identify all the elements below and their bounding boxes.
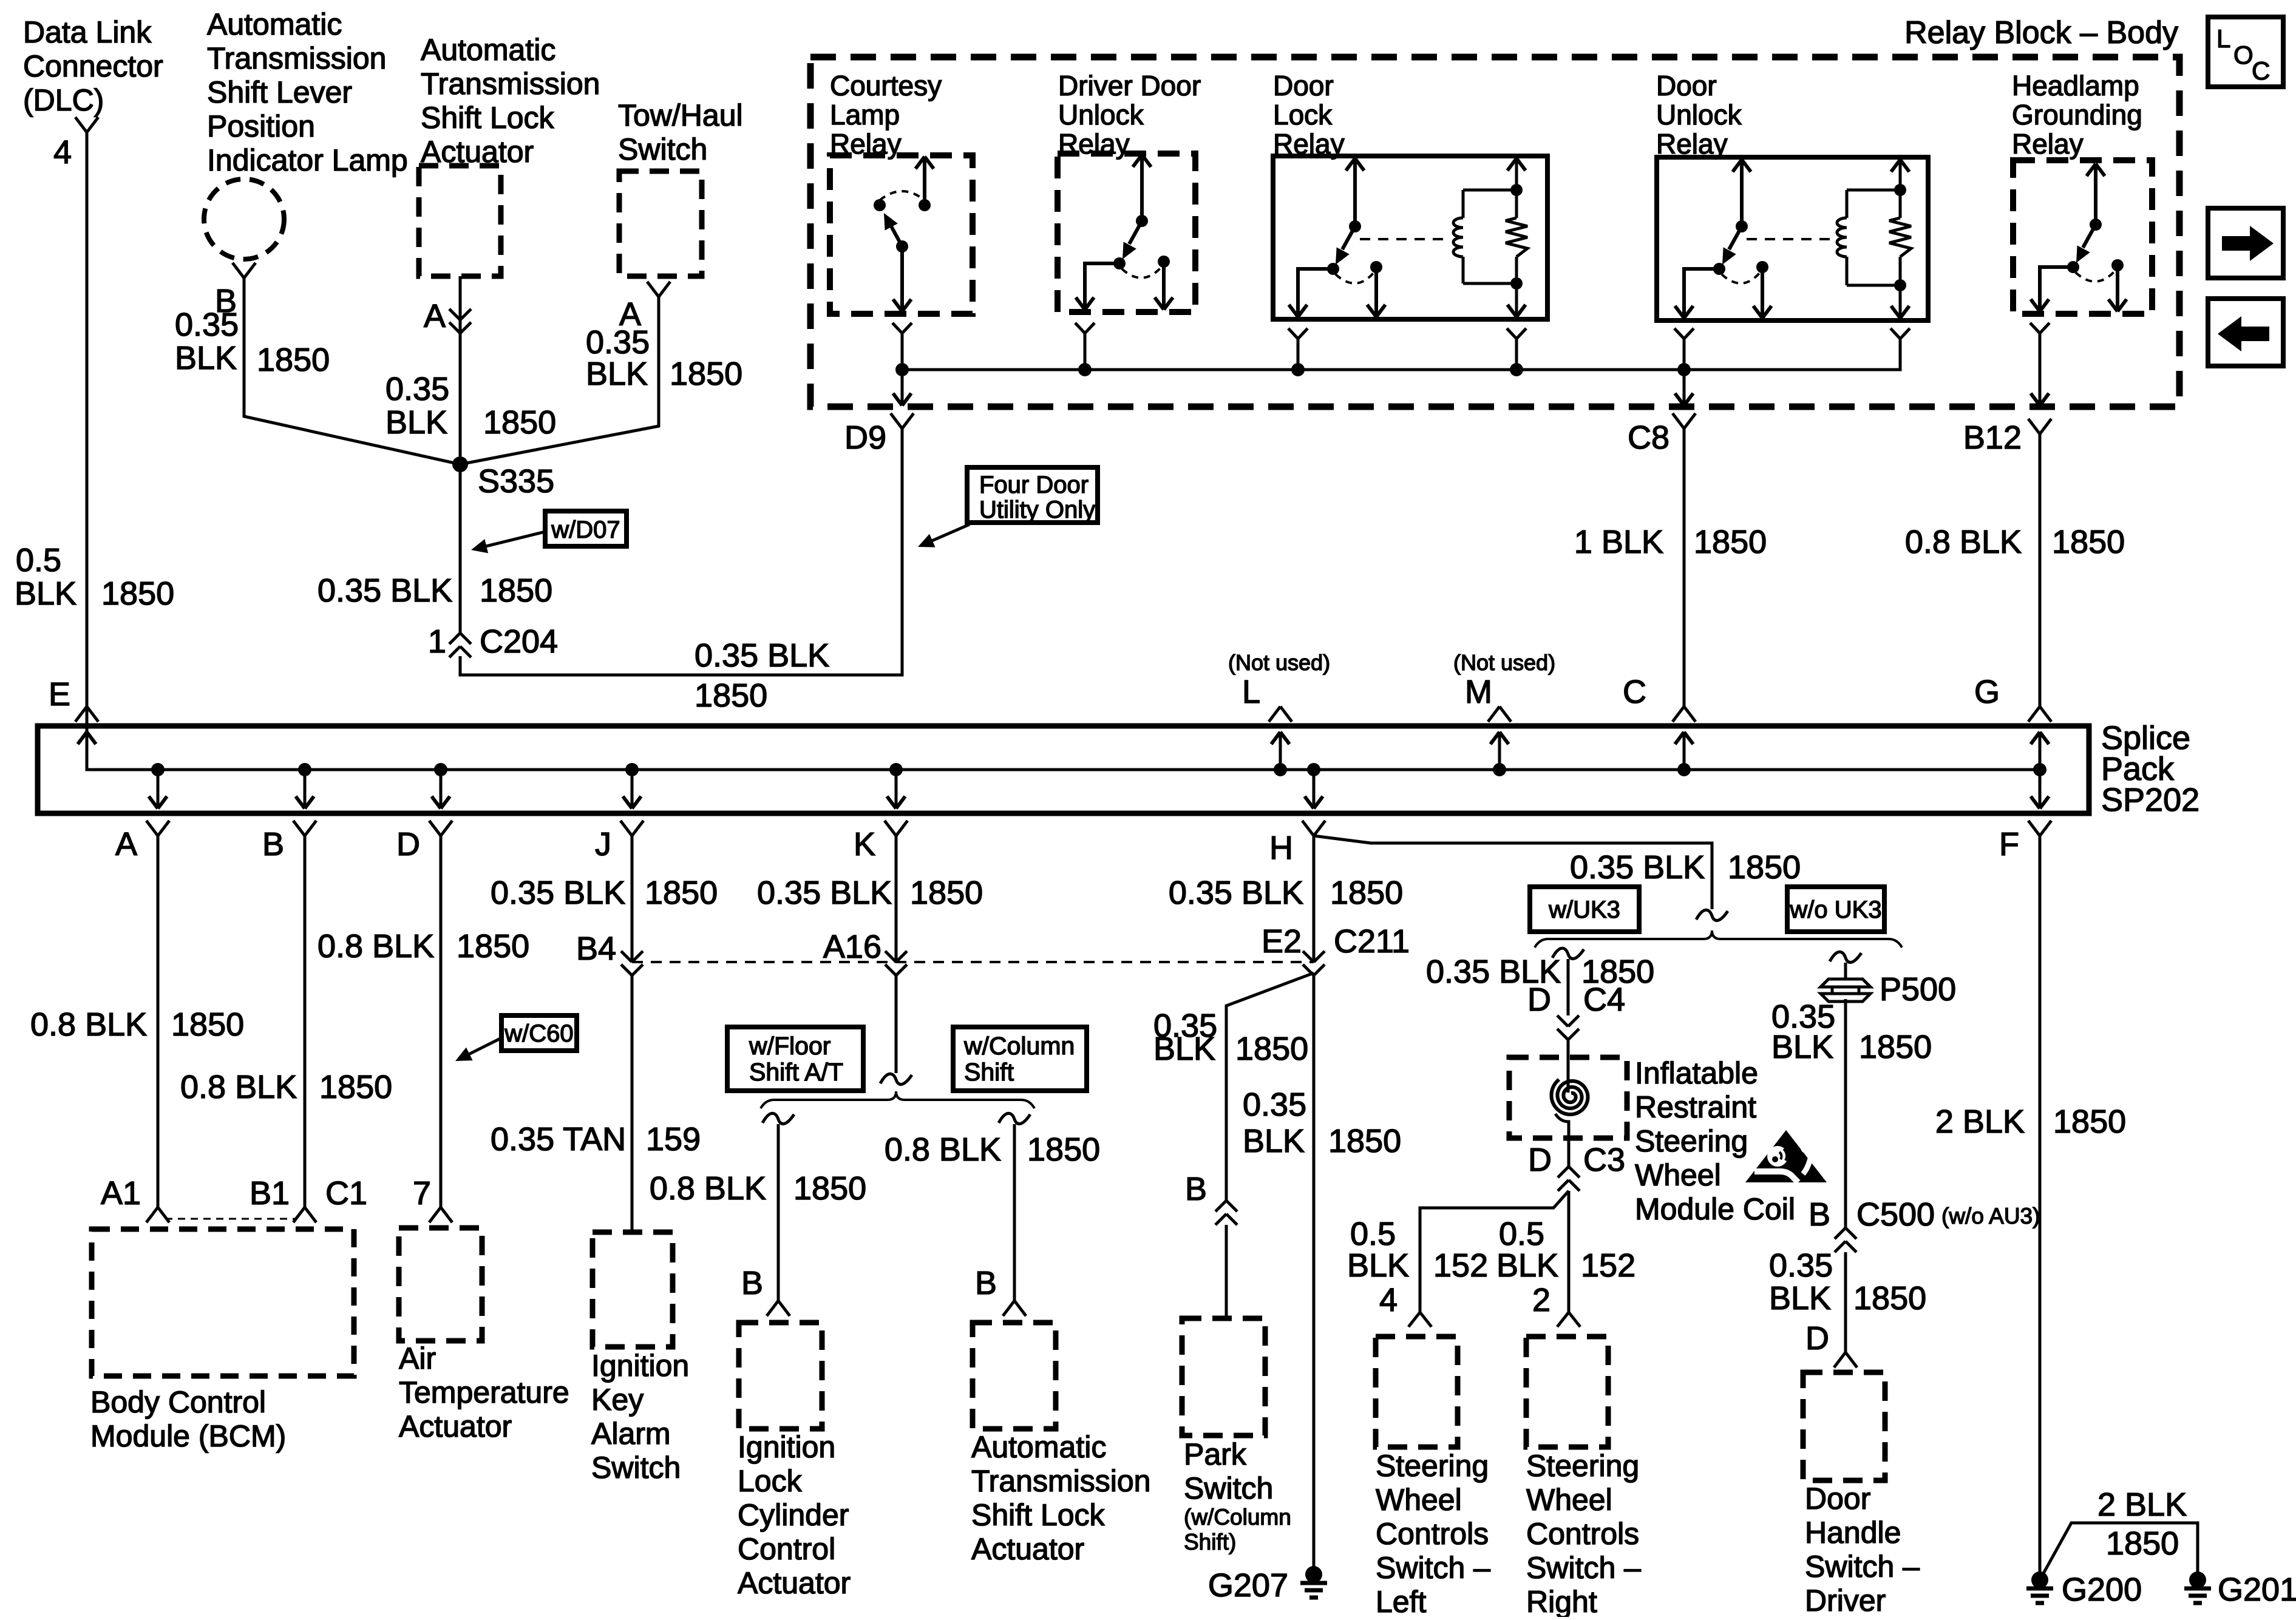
wire: tow/haul switch pin A to S335 (0.35 BLK 1850)	[460, 297, 659, 464]
svg-text:w/Column: w/Column	[963, 1032, 1075, 1060]
svg-text:G201: G201	[2218, 1571, 2296, 1608]
svg-text:Position: Position	[207, 109, 315, 143]
splice pack pin H	[1269, 770, 1325, 866]
svg-text:1850: 1850	[480, 572, 552, 609]
wire: C204 to relay block D9 wire (0.35 BLK 1850)	[460, 429, 902, 675]
label: 0.8 BLK 1850 (B12 wire)	[1905, 524, 2125, 560]
label: 0.35 BLK 1850 (H wire below C211)	[1243, 1086, 1401, 1159]
svg-text:A16: A16	[823, 929, 881, 965]
wire: H branch to UK3 option split (0.35 BLK 1850)	[1314, 836, 1728, 921]
svg-text:4: 4	[1379, 1282, 1398, 1318]
svg-text:S335: S335	[478, 463, 554, 500]
splice pack pin G (from relay B12)	[1974, 674, 2051, 770]
airbag warning triangle	[1745, 1130, 1827, 1182]
wire: splice pack F to ground G200 (2 BLK 1850)	[2039, 836, 2042, 1580]
svg-text:D: D	[1528, 1142, 1552, 1178]
svg-text:0.35 BLK: 0.35 BLK	[757, 875, 892, 911]
svg-text:Indicator Lamp: Indicator Lamp	[207, 143, 408, 177]
svg-text:BLK: BLK	[1496, 1247, 1558, 1284]
svg-text:B: B	[975, 1265, 997, 1301]
connector C4 pin D (double chevron)	[1527, 981, 1625, 1040]
label: 2 BLK 1850 (wire F)	[1935, 1103, 2126, 1140]
label: 0.5 BLK 1850 on DLC ground wire	[15, 542, 174, 612]
svg-text:0.35 BLK: 0.35 BLK	[695, 637, 829, 674]
svg-text:C: C	[2252, 56, 2270, 85]
svg-text:Switch –: Switch –	[1376, 1551, 1490, 1585]
svg-text:Door: Door	[1656, 70, 1717, 101]
svg-text:Left: Left	[1376, 1585, 1427, 1617]
option note box: Four Door Utility Only, with pointer arrow	[918, 467, 1098, 547]
park switch pin B (double chevron)	[1185, 1171, 1237, 1225]
svg-text:C4: C4	[1583, 981, 1625, 1018]
svg-text:C: C	[1623, 674, 1646, 710]
label: 0.35 BLK 1850 (S335-C204 wire)	[318, 572, 552, 609]
option split brace (w/UK3 vs w/o UK3)	[1535, 930, 1902, 947]
connector C204 pin 1 (double chevron)	[428, 623, 558, 660]
label: 0.35 TAN 159	[491, 1121, 701, 1157]
component label: Tow/Haul Switch	[618, 98, 743, 166]
svg-text:159: 159	[646, 1121, 701, 1157]
svg-text:C204: C204	[480, 623, 558, 660]
door handle switch pin D	[1805, 1320, 1857, 1368]
door lock relay coil and resistor	[1360, 158, 1527, 317]
svg-text:Tow/Haul: Tow/Haul	[618, 98, 743, 132]
splice pack pin A	[115, 770, 169, 863]
component label: Inflatable Restraint Steering Wheel Module Coil	[1635, 1056, 1795, 1226]
svg-text:1850: 1850	[457, 928, 529, 964]
connector C211 pin B4 (double chevron)	[576, 930, 643, 975]
door unlock relay switch	[1675, 160, 1771, 318]
svg-text:0.8 BLK: 0.8 BLK	[180, 1069, 297, 1105]
svg-text:1850: 1850	[1027, 1131, 1100, 1168]
svg-text:0.5: 0.5	[1499, 1216, 1544, 1252]
svg-text:Body Control: Body Control	[90, 1385, 266, 1419]
label: 0.35 BLK 1850 (park switch branch)	[1153, 1008, 1308, 1067]
svg-text:BLK: BLK	[586, 356, 648, 392]
svg-text:(DLC): (DLC)	[23, 83, 104, 117]
svg-text:0.35 BLK: 0.35 BLK	[1570, 849, 1705, 886]
svg-text:G: G	[1974, 674, 2000, 710]
svg-text:C500: C500	[1856, 1196, 1935, 1233]
wire: branch to park switch (0.35 BLK 1850)	[1226, 973, 1314, 1201]
svg-text:B1: B1	[250, 1175, 290, 1212]
wire: C211 E2 to ground G207 (0.35 BLK 1850)	[1313, 973, 1316, 1574]
svg-text:(w/o AU3): (w/o AU3)	[1941, 1204, 2040, 1229]
svg-text:1: 1	[428, 623, 446, 660]
svg-text:2 BLK: 2 BLK	[2097, 1486, 2187, 1523]
svg-text:G207: G207	[1208, 1567, 1288, 1604]
component label: Door Unlock Relay	[1656, 70, 1742, 160]
svg-text:0.35: 0.35	[1243, 1086, 1306, 1123]
label: 0.35 BLK 1850 (wire J)	[491, 875, 718, 911]
svg-text:Lamp: Lamp	[830, 99, 900, 130]
svg-text:1850: 1850	[1694, 524, 1767, 560]
splice pack pin K	[854, 770, 908, 863]
svg-text:M: M	[1465, 674, 1492, 710]
component label: A/T Shift Lever Position Indicator Lamp	[207, 7, 408, 177]
svg-text:1850: 1850	[910, 875, 983, 911]
svg-text:C8: C8	[1628, 419, 1669, 456]
wire: module coil to connector C3	[1555, 1114, 1569, 1167]
splice pack pin B	[262, 770, 316, 863]
svg-text:D: D	[1527, 981, 1551, 1018]
svg-text:BLK: BLK	[1771, 1029, 1833, 1065]
splice pack pin M (not used)	[1453, 650, 1555, 770]
svg-text:1850: 1850	[1859, 1029, 1932, 1065]
pin A of shift lock actuator	[424, 298, 471, 334]
BCM pin A1	[101, 1175, 169, 1222]
door unlock relay coil and resistor	[1747, 160, 1911, 318]
svg-text:4: 4	[53, 134, 72, 171]
component label: Door Lock Relay	[1273, 70, 1345, 160]
steering wheel module coil spiral (clockspring)	[1552, 1080, 1588, 1115]
svg-text:1850: 1850	[2106, 1525, 2179, 1562]
component label: Body Control Module (BCM)	[90, 1385, 286, 1453]
wire: C500 to door handle switch pin D (0.35 BLK 1850)	[1844, 1252, 1847, 1352]
grommet P500	[1821, 971, 1956, 1008]
label: 0.8 BLK 1850 (wire B)	[180, 1069, 392, 1105]
svg-text:1850: 1850	[2053, 1103, 2126, 1140]
svg-text:B4: B4	[576, 930, 616, 967]
svg-text:BLK: BLK	[1243, 1123, 1305, 1159]
svg-text:Driver: Driver	[1805, 1584, 1886, 1617]
dashed link between BCM pins A1 and B1	[165, 1218, 297, 1220]
Splice Pack SP202 box	[38, 726, 2089, 813]
LOC legend box	[2208, 17, 2283, 87]
svg-text:Unlock: Unlock	[1656, 99, 1742, 130]
svg-text:(Not used): (Not used)	[1228, 650, 1330, 675]
Door Handle Switch - Driver box (dashed)	[1803, 1372, 1885, 1480]
wire: column-shift branch to A/T shift lock actuator (0.8 BLK 1850)	[999, 1113, 1030, 1301]
svg-text:Lock: Lock	[738, 1464, 803, 1498]
wire: C211 A16 down to option split	[880, 973, 912, 1085]
svg-text:0.35: 0.35	[586, 324, 650, 361]
wire: shift lock actuator pin A to S335 (0.35 BLK 1850)	[459, 276, 462, 464]
label: 0.35 BLK 1850 (C500 wire)	[1769, 1247, 1926, 1317]
ignition lock cylinder control actuator pin B	[741, 1265, 790, 1316]
driver door unlock relay switch	[1076, 155, 1173, 310]
svg-text:C3: C3	[1583, 1142, 1625, 1178]
steering wheel controls switch right pin 2	[1532, 1282, 1580, 1327]
svg-text:0.35: 0.35	[175, 307, 239, 343]
component label: Steering Wheel Controls Switch - Left	[1376, 1449, 1490, 1619]
svg-text:0.8 BLK: 0.8 BLK	[1905, 524, 2022, 560]
option flag box w/C60 with pointer arrow	[455, 1015, 577, 1061]
svg-text:SP202: SP202	[2101, 782, 2199, 818]
svg-text:E: E	[49, 676, 70, 713]
svg-text:Switch: Switch	[1184, 1471, 1273, 1505]
svg-text:Wheel: Wheel	[1635, 1158, 1721, 1192]
svg-text:Steering: Steering	[1376, 1449, 1489, 1483]
svg-text:J: J	[595, 826, 611, 863]
wire: lamp pin B to splice S335 (0.35 BLK 1850)	[244, 278, 460, 464]
wire: headlamp relay to pin B12	[1963, 323, 2051, 707]
svg-text:1850: 1850	[2052, 524, 2125, 560]
courtesy lamp relay box (dashed)	[830, 155, 973, 314]
svg-text:A: A	[115, 826, 137, 863]
svg-text:0.35: 0.35	[385, 371, 449, 407]
svg-text:Park: Park	[1184, 1437, 1247, 1471]
label: 0.35 BLK 1850 (tow/haul wire)	[586, 324, 742, 392]
svg-text:G200: G200	[2062, 1571, 2142, 1608]
wire: DLC pin 4 to Splice Pack pin E	[86, 132, 89, 707]
svg-text:1850: 1850	[483, 404, 556, 441]
svg-text:152: 152	[1581, 1247, 1635, 1284]
option split brace (floor/column shift)	[761, 1091, 1034, 1108]
svg-text:B12: B12	[1963, 419, 2022, 456]
svg-text:1850: 1850	[257, 342, 330, 378]
ground G201	[2184, 1571, 2296, 1608]
door unlock relay bottom-left pin to bus (C8 junction)	[1674, 328, 1694, 370]
wire: floor-shift branch to ignition lock cylinder control actuator (0.8 BLK 1850)	[763, 1113, 794, 1301]
pin 4 of DLC	[53, 117, 98, 171]
splice pack pin F	[1999, 770, 2051, 863]
indicator lamp (dashed circle)	[204, 179, 284, 259]
option flag box w/o UK3	[1787, 887, 1884, 932]
svg-text:Transmission: Transmission	[421, 67, 600, 101]
svg-text:Shift Lock: Shift Lock	[421, 101, 555, 135]
navigation box: arrow left	[2208, 299, 2283, 366]
component label: Automatic Transmission Shift Lock Actuator (bottom)	[971, 1430, 1150, 1566]
component label: Ignition Key Alarm Switch	[591, 1349, 689, 1485]
option flag box w/UK3	[1530, 887, 1639, 932]
svg-text:Controls: Controls	[1376, 1517, 1489, 1551]
connector C211 pin E2 (double chevron)	[1262, 923, 1410, 975]
svg-text:Grounding: Grounding	[2012, 99, 2142, 130]
component label: Headlamp Grounding Relay	[2012, 70, 2142, 160]
wire: w/o UK3 branch to grommet P500 (0.35 BLK 1850)	[1830, 952, 1861, 980]
option flag box w/D07 with pointer arrow	[471, 511, 627, 553]
svg-text:Right: Right	[1526, 1585, 1597, 1617]
steering wheel controls switch left pin 4	[1379, 1282, 1432, 1327]
wire: splice pack D to air temperature actuator pin 7 (0.8 BLK 1850)	[440, 836, 443, 1207]
svg-text:Handle: Handle	[1805, 1516, 1901, 1550]
svg-text:P500: P500	[1880, 971, 1956, 1008]
svg-text:Automatic: Automatic	[971, 1430, 1106, 1464]
svg-text:C1: C1	[325, 1175, 367, 1212]
wire: bus to relay block pin C8	[1628, 370, 1696, 707]
svg-text:Steering: Steering	[1526, 1449, 1639, 1483]
connector C211 dashed line	[632, 961, 1314, 963]
component label: Park Switch (w/Column Shift)	[1184, 1437, 1291, 1554]
air temperature actuator pin 7	[413, 1175, 452, 1222]
svg-text:Shift Lever: Shift Lever	[207, 75, 352, 109]
Ignition Lock Cylinder Control Actuator box (dashed)	[739, 1323, 822, 1429]
svg-text:Key: Key	[591, 1383, 644, 1417]
splice pack pin C (from relay C8)	[1623, 674, 1696, 770]
svg-text:w/o UK3: w/o UK3	[1789, 896, 1881, 923]
label: 0.8 BLK 1850 (wire D)	[318, 928, 529, 964]
svg-text:Temperature: Temperature	[399, 1375, 569, 1409]
svg-text:(w/Column: (w/Column	[1184, 1505, 1291, 1530]
svg-text:1850: 1850	[1235, 1031, 1308, 1067]
svg-text:Relay Block – Body: Relay Block – Body	[1904, 15, 2178, 50]
door unlock relay bottom-right (coil) pin to bus	[1890, 328, 1910, 370]
svg-text:0.35: 0.35	[1769, 1247, 1833, 1284]
connector C500 pin B (w/o AU3)	[1809, 1196, 2040, 1252]
wire: splice pack J to connector C211 B4 (0.35 BLK 1850)	[631, 836, 634, 962]
component label: Door Handle Switch - Driver	[1805, 1482, 1920, 1618]
courtesy lamp relay bottom pin to bus	[892, 323, 912, 370]
svg-text:L: L	[1242, 674, 1260, 710]
svg-text:0.8 BLK: 0.8 BLK	[650, 1170, 766, 1207]
svg-text:Door: Door	[1805, 1482, 1870, 1516]
wire: splice pack K to connector C211 A16 (0.35 BLK 1850)	[895, 836, 898, 962]
svg-text:Module (BCM): Module (BCM)	[90, 1419, 286, 1453]
svg-text:Four Door: Four Door	[979, 472, 1089, 498]
svg-text:Connector: Connector	[23, 49, 163, 83]
svg-text:0.35 BLK: 0.35 BLK	[1169, 875, 1303, 911]
navigation box: arrow right	[2208, 208, 2283, 278]
wire: S335 to connector C204 (0.35 BLK 1850)	[459, 464, 462, 633]
Relay Block - Body outer dashed box	[810, 57, 2179, 407]
driver door unlock relay box (dashed)	[1058, 154, 1195, 312]
svg-text:(Not used): (Not used)	[1453, 650, 1555, 675]
svg-text:1850: 1850	[670, 356, 742, 392]
svg-text:Ignition: Ignition	[591, 1349, 689, 1383]
svg-text:B: B	[262, 826, 284, 863]
door lock relay switch	[1289, 158, 1385, 317]
svg-text:1850: 1850	[101, 575, 174, 612]
component label: Courtesy Lamp Relay	[830, 70, 942, 160]
svg-text:Door: Door	[1273, 70, 1334, 101]
headlamp grounding relay box (dashed)	[2013, 160, 2152, 314]
svg-text:Automatic: Automatic	[421, 33, 555, 67]
component label: Automatic Transmission Shift Lock Actuator (top)	[421, 33, 600, 169]
svg-text:BLK: BLK	[1153, 1031, 1215, 1067]
splice S335 junction	[452, 456, 554, 500]
pin A of tow/haul switch	[619, 282, 670, 333]
svg-text:E2: E2	[1262, 923, 1302, 960]
svg-text:K: K	[854, 826, 875, 863]
door lock relay bottom-left pin to bus	[1288, 328, 1308, 370]
svg-text:Utility Only: Utility Only	[979, 497, 1095, 523]
svg-text:Controls: Controls	[1526, 1517, 1639, 1551]
splice pack pin D	[396, 770, 452, 863]
svg-text:Shift Lock: Shift Lock	[971, 1498, 1106, 1532]
component label: Ignition Lock Cylinder Control Actuator	[738, 1430, 851, 1600]
svg-text:BLK: BLK	[15, 575, 76, 612]
svg-text:Relay: Relay	[2012, 128, 2084, 160]
svg-text:Transmission: Transmission	[971, 1464, 1150, 1498]
driver door unlock relay bottom pin to bus	[1075, 323, 1095, 370]
svg-text:Switch: Switch	[618, 132, 707, 166]
svg-text:w/C60: w/C60	[504, 1020, 573, 1047]
Ignition Key Alarm Switch box (dashed)	[593, 1232, 673, 1347]
svg-text:2 BLK: 2 BLK	[1935, 1103, 2025, 1140]
connector C3 pin D (double chevron)	[1528, 1142, 1625, 1191]
wire: C4 pin D into steering wheel module coil	[1567, 1037, 1570, 1093]
svg-text:Shift: Shift	[964, 1058, 1014, 1086]
svg-text:D: D	[1805, 1320, 1829, 1357]
label: 0.35 BLK 1850 (w/UK3 branch)	[1426, 954, 1654, 990]
svg-text:Transmission: Transmission	[207, 41, 386, 75]
svg-text:A1: A1	[101, 1175, 141, 1212]
wire: splice pack A to BCM A1 (0.8 BLK 1850)	[157, 836, 160, 1207]
svg-text:Air: Air	[399, 1341, 436, 1375]
svg-text:7: 7	[413, 1175, 431, 1212]
ground G200	[2026, 1571, 2142, 1608]
svg-text:1850: 1850	[1853, 1280, 1926, 1317]
svg-text:w/Floor: w/Floor	[749, 1032, 830, 1060]
svg-text:Data Link: Data Link	[23, 15, 152, 49]
svg-text:1850: 1850	[695, 677, 767, 714]
wire: P500 to connector C500 (0.35 BLK 1850)	[1844, 999, 1847, 1228]
svg-text:Shift A/T: Shift A/T	[749, 1058, 843, 1086]
svg-text:BLK: BLK	[175, 340, 237, 376]
splice pack internal bus	[78, 707, 2046, 776]
svg-text:w/D07: w/D07	[551, 517, 620, 543]
svg-text:Inflatable: Inflatable	[1635, 1056, 1758, 1090]
svg-text:BLK: BLK	[1347, 1247, 1409, 1284]
svg-text:Control: Control	[738, 1532, 835, 1566]
svg-text:0.5: 0.5	[1350, 1216, 1396, 1252]
label: 0.35 BLK 1850 (lamp wire)	[175, 307, 330, 378]
door lock relay bottom-right pin to bus	[1507, 328, 1526, 370]
option flag box w/Floor Shift A/T	[727, 1027, 863, 1091]
component label: Steering Wheel Controls Switch - Right	[1526, 1449, 1641, 1619]
svg-text:1850: 1850	[171, 1006, 244, 1043]
splice pack pin L (not used)	[1228, 650, 1330, 770]
svg-text:0.5: 0.5	[16, 542, 61, 578]
component label: Data Link Connector (DLC)	[23, 15, 163, 117]
A/T shift lock actuator pin B	[975, 1265, 1026, 1316]
svg-text:O: O	[2233, 41, 2254, 69]
wire: jumper G200 to G201 (2 BLK 1850)	[2040, 1523, 2198, 1580]
svg-text:Actuator: Actuator	[971, 1532, 1084, 1566]
svg-text:B: B	[741, 1265, 763, 1301]
svg-text:Alarm: Alarm	[591, 1417, 671, 1451]
svg-text:1850: 1850	[1330, 875, 1403, 911]
svg-text:Headlamp: Headlamp	[2012, 70, 2139, 101]
Inflatable Restraint Steering Wheel Module Coil box (dashed)	[1509, 1057, 1627, 1138]
svg-text:Actuator: Actuator	[738, 1566, 851, 1600]
svg-text:2: 2	[1532, 1282, 1550, 1318]
shift lock actuator box (dashed)	[419, 166, 501, 276]
label: 0.8 BLK 1850 (wire A)	[30, 1006, 244, 1043]
Body Control Module (BCM) box (dashed)	[92, 1229, 354, 1376]
component label: Air Temperature Actuator	[399, 1341, 569, 1443]
svg-text:0.8 BLK: 0.8 BLK	[318, 928, 434, 964]
svg-text:Steering: Steering	[1635, 1124, 1748, 1158]
Air Temperature Actuator box (dashed)	[399, 1228, 482, 1341]
label: 0.8 BLK 1850 (floor shift branch)	[650, 1170, 866, 1207]
svg-text:B: B	[1809, 1196, 1830, 1233]
label: 0.35 BLK / 1850 (horizontal run)	[695, 637, 829, 714]
svg-text:A: A	[424, 298, 446, 334]
svg-text:0.8 BLK: 0.8 BLK	[885, 1131, 1001, 1168]
svg-text:BLK: BLK	[1769, 1280, 1831, 1317]
door unlock relay box (solid)	[1657, 157, 1928, 320]
wire: C3 to steering wheel controls switch left (0.5 BLK 152)	[1420, 1191, 1569, 1312]
svg-text:152: 152	[1433, 1247, 1488, 1284]
svg-text:Driver Door: Driver Door	[1058, 70, 1201, 101]
svg-text:1 BLK: 1 BLK	[1574, 524, 1663, 560]
pin B of indicator lamp	[215, 263, 256, 319]
wire: splice pack B to BCM B1 (0.8 BLK 1850)	[304, 836, 307, 1207]
svg-text:Module Coil: Module Coil	[1635, 1192, 1795, 1226]
svg-text:Courtesy: Courtesy	[830, 70, 942, 101]
headlamp grounding relay switch	[2031, 164, 2127, 311]
svg-text:w/UK3: w/UK3	[1548, 896, 1620, 923]
tow/haul switch box (dashed)	[619, 171, 702, 276]
wire: w/UK3 branch to connector C4 (0.35 BLK 1850)	[1552, 948, 1584, 1015]
svg-text:0.35 BLK: 0.35 BLK	[318, 572, 452, 609]
splice pack pin J	[595, 770, 644, 863]
wire: C3 to steering wheel controls switch right (0.5 BLK 152)	[1567, 1191, 1571, 1312]
svg-text:Shift): Shift)	[1184, 1530, 1236, 1554]
svg-text:0.8 BLK: 0.8 BLK	[30, 1006, 147, 1043]
